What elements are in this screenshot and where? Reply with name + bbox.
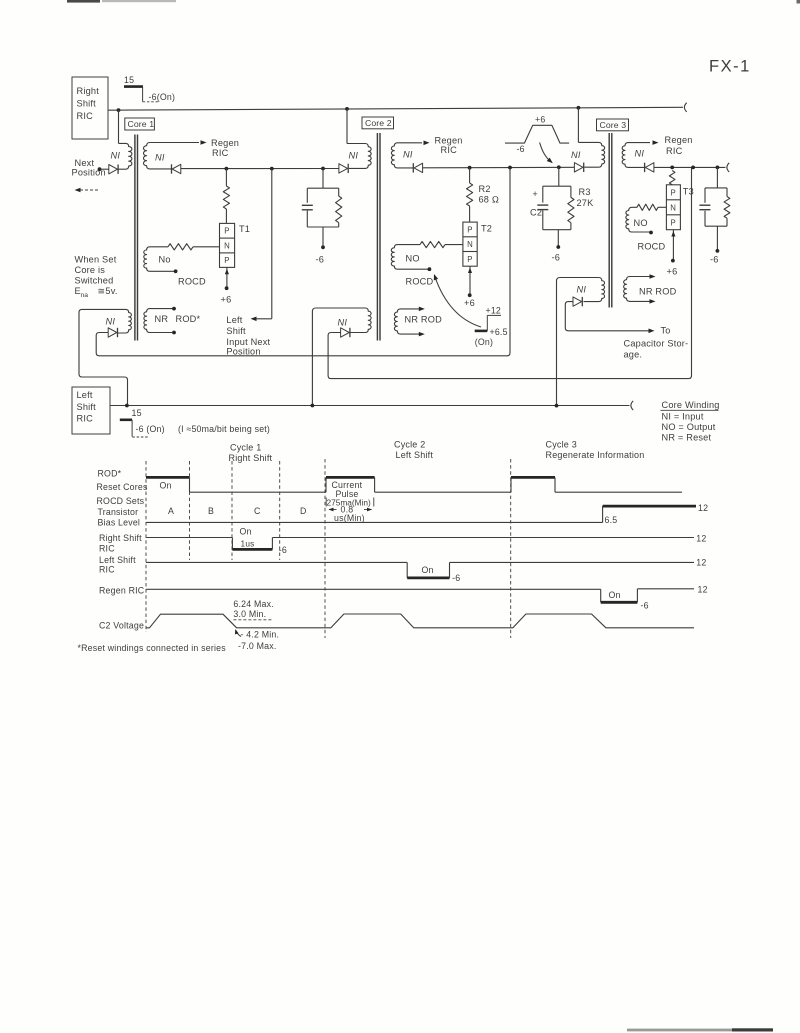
svg-text:Position: Position xyxy=(226,347,260,357)
label NI xyxy=(577,285,587,295)
svg-text:+: + xyxy=(533,189,538,199)
svg-text:3.0 Min.: 3.0 Min. xyxy=(233,609,266,619)
wire: core1 regen line to core2 input diode xyxy=(181,168,339,170)
svg-text:Left: Left xyxy=(226,315,242,325)
label Regen RIC xyxy=(211,138,239,158)
row label ROCD Sets Transistor Bias Level xyxy=(97,496,145,528)
diode (core3 input) xyxy=(574,163,583,172)
diode (core2 input from core1 side) xyxy=(339,164,348,173)
dashed divider x=189.5 xyxy=(189,461,191,560)
svg-text:P: P xyxy=(670,188,675,197)
level annotation +12/+6.5(On) xyxy=(475,305,508,347)
svg-text:-6: -6 xyxy=(316,255,325,265)
svg-text:Cycle 3: Cycle 3 xyxy=(546,440,577,450)
svg-text:NI: NI xyxy=(571,150,581,160)
winding NI core2 regen (right top) xyxy=(391,143,422,168)
core 1 (magnetic core, double line) xyxy=(135,135,138,341)
svg-text:na: na xyxy=(81,292,89,299)
label NI xyxy=(106,316,116,326)
svg-text:ROCD: ROCD xyxy=(178,276,206,286)
svg-text:NI: NI xyxy=(577,285,587,295)
svg-text:On: On xyxy=(160,481,172,491)
svg-text:NR: NR xyxy=(155,314,169,324)
section labels A B C D xyxy=(168,506,307,516)
winding NI core1 regen (right top) xyxy=(144,143,199,169)
arrow and labels -4.2 Min / -7.0 Max xyxy=(235,629,279,651)
svg-text:Switched: Switched xyxy=(75,276,114,286)
junction dot xyxy=(345,107,349,111)
wire: top bus drop to core1 NI winding xyxy=(118,110,120,143)
label +6 xyxy=(221,295,232,305)
label 6.5 xyxy=(605,515,618,525)
labels On -6 12 xyxy=(422,557,707,583)
svg-text:R2: R2 xyxy=(479,184,491,194)
labels On -6 12 xyxy=(609,584,708,610)
svg-text:To: To xyxy=(661,326,671,336)
winding NI core3 regen (right top) xyxy=(622,143,650,168)
svg-text:-6: -6 xyxy=(517,144,525,154)
dashed divider x=232 xyxy=(231,461,233,560)
svg-text:Regenerate Information: Regenerate Information xyxy=(546,450,645,460)
diode (core1 regen output) xyxy=(172,164,181,173)
waveform C2 voltage xyxy=(146,614,694,628)
label NI xyxy=(111,150,121,160)
svg-text:RIC: RIC xyxy=(212,148,229,158)
dashed divider x=279.7 xyxy=(279,461,281,560)
svg-text:Core is: Core is xyxy=(75,265,106,275)
label Next Position xyxy=(72,158,106,177)
svg-text:C2 Voltage: C2 Voltage xyxy=(99,621,144,631)
row label Regen RIC xyxy=(99,586,145,596)
legend: core winding xyxy=(661,400,720,443)
svg-text:Core Winding: Core Winding xyxy=(662,400,720,410)
svg-text:T2: T2 xyxy=(481,223,492,233)
waveform Regen RIC xyxy=(146,589,694,603)
node ROCD (core3) xyxy=(649,231,653,235)
svg-text:-6: -6 xyxy=(552,253,561,263)
winding NI core3 left-shift input (left bottom) xyxy=(560,278,605,302)
resistor (T3 collector) xyxy=(669,171,675,185)
junction dot xyxy=(117,108,121,112)
svg-text:-6 (On): -6 (On) xyxy=(136,424,165,434)
svg-text:N: N xyxy=(670,203,676,212)
junction dot (wire A / box) xyxy=(508,166,512,170)
core 3 (magnetic core, double line) xyxy=(609,133,612,308)
wire: left-shift RIC bus xyxy=(110,401,633,410)
svg-text:NI: NI xyxy=(349,151,359,161)
dashed cycle boundary x=325 xyxy=(324,459,326,638)
junction dot (T3) xyxy=(670,166,674,170)
junction dot xyxy=(555,404,559,408)
waveform Right Shift RIC xyxy=(146,538,694,550)
winding NO core2 output xyxy=(391,245,429,270)
svg-text:NR ROD: NR ROD xyxy=(639,287,677,297)
svg-text:T3: T3 xyxy=(683,187,694,197)
svg-text:15: 15 xyxy=(124,75,134,85)
transistor T2 (PNP boxes) xyxy=(463,222,477,266)
svg-text:NI = Input: NI = Input xyxy=(662,412,704,422)
label NO xyxy=(406,254,420,264)
transistor T1 (PNP boxes) xyxy=(220,223,235,267)
block Left Shift RIC xyxy=(72,387,110,434)
svg-text:NI: NI xyxy=(403,150,413,160)
wire: core2 regen line to core3 input diode xyxy=(423,166,575,169)
svg-text:Cycle 1: Cycle 1 xyxy=(230,443,261,453)
label To Capacitor Storage xyxy=(624,326,689,360)
node ROCD (core1) xyxy=(174,269,178,273)
svg-text:NI: NI xyxy=(106,316,116,326)
label 12 xyxy=(698,503,708,513)
svg-text:Right Shift: Right Shift xyxy=(99,533,142,543)
footnote reset windings xyxy=(78,643,227,653)
label ROCD xyxy=(178,276,206,286)
winding NI core2 left-shift input (left bottom) xyxy=(316,308,371,333)
svg-text:+12: +12 xyxy=(486,305,502,315)
curved arrow from pulse to core3 input node xyxy=(540,143,553,164)
diode (next position input, core1) xyxy=(100,165,118,174)
note: When Set Core is Switched xyxy=(75,255,118,300)
arrow to Regen RIC (core2) xyxy=(424,141,430,146)
block Right Shift RIC xyxy=(72,77,108,139)
winding NR ROD* core1 reset xyxy=(144,309,174,333)
T1 emitter wire to +6 xyxy=(225,267,229,290)
svg-text:12: 12 xyxy=(698,584,708,594)
diode (core2 regen output) xyxy=(413,163,422,172)
svg-text:27K: 27K xyxy=(577,198,595,208)
svg-text:68 Ω: 68 Ω xyxy=(479,195,500,205)
wire: core3 regen line xyxy=(654,163,729,172)
label NI xyxy=(571,150,581,160)
junction dot (RC net 1) xyxy=(321,167,325,171)
svg-text:C: C xyxy=(254,506,261,516)
wire: to capacitor storage xyxy=(565,302,654,333)
svg-text:(I ≈50ma/bit being set): (I ≈50ma/bit being set) xyxy=(178,424,270,434)
level annotation 15/-6(On) at Left Shift RIC xyxy=(120,408,165,437)
label T1 xyxy=(239,224,250,234)
svg-text:Regen: Regen xyxy=(211,138,239,148)
page corner mark xyxy=(797,0,800,4)
label NI xyxy=(338,318,348,328)
svg-text:1us: 1us xyxy=(241,539,255,549)
label ROCD xyxy=(406,277,434,287)
svg-text:Right: Right xyxy=(77,86,100,96)
svg-text:Core 1: Core 1 xyxy=(128,119,155,129)
wire: left shift input next position (vertical + arrow) xyxy=(251,169,272,321)
timing diagram headers xyxy=(229,443,273,464)
label NR ROD* xyxy=(155,314,201,324)
svg-text:Reset Cores: Reset Cores xyxy=(97,482,148,492)
label T3 xyxy=(683,187,694,197)
svg-text:Position: Position xyxy=(72,167,106,177)
label NI xyxy=(349,151,359,161)
label NI xyxy=(635,149,645,159)
svg-text:RIC: RIC xyxy=(666,146,683,156)
svg-text:Transistor: Transistor xyxy=(98,507,139,517)
arrow to Regen RIC (core1) xyxy=(201,140,207,145)
labels 6.24 Max / 3.0 Min xyxy=(233,599,273,620)
label Left Shift Input Next Position xyxy=(226,315,270,357)
junction dot (RC net 3) xyxy=(716,166,720,170)
junction dot (wire B) xyxy=(691,166,695,170)
waveform ROD reset cores xyxy=(146,477,682,492)
row label Right Shift RIC xyxy=(99,533,142,554)
core 2 (magnetic core, double line) xyxy=(377,133,380,341)
winding NR ROD core2 reset xyxy=(394,309,421,334)
waveform Left Shift RIC xyxy=(146,562,694,578)
diode (core3 regen output) xyxy=(645,163,654,172)
wire from left-shift bus up to core3 bottom NI xyxy=(557,278,561,406)
diode (core3 left-shift input) xyxy=(573,297,582,306)
winding NR ROD core3 reset xyxy=(624,277,651,302)
label NI xyxy=(155,153,165,163)
svg-text:C2: C2 xyxy=(530,208,542,218)
winding NI core1 right-shift input (left bottom) xyxy=(118,309,131,333)
resistor (T1 collector) xyxy=(223,169,229,224)
svg-text:NI: NI xyxy=(111,150,121,160)
svg-text:On: On xyxy=(609,590,621,600)
svg-text:P: P xyxy=(224,256,229,265)
svg-text:ROCD Sets: ROCD Sets xyxy=(97,496,145,506)
svg-text:RIC: RIC xyxy=(77,111,94,121)
svg-text:NI: NI xyxy=(155,153,165,163)
level annotation 15/-6(On) at Right Shift RIC xyxy=(124,75,175,102)
svg-text:P: P xyxy=(467,255,472,264)
svg-text:Core 2: Core 2 xyxy=(365,118,392,128)
svg-text:NR ROD: NR ROD xyxy=(405,314,443,324)
label NR ROD xyxy=(639,287,677,297)
loop wire for core1 bottom NI from left-shift RIC xyxy=(79,309,128,405)
label T2 xyxy=(481,223,492,233)
T2 emitter wire to +6 xyxy=(468,266,472,297)
svg-text:15: 15 xyxy=(132,408,142,418)
svg-text:FX-1: FX-1 xyxy=(709,58,751,76)
svg-text:R3: R3 xyxy=(579,187,591,197)
svg-text:Left Shift: Left Shift xyxy=(99,555,136,565)
svg-text:6.24 Max.: 6.24 Max. xyxy=(233,599,273,609)
svg-text:*Reset windings connected in s: *Reset windings connected in series xyxy=(78,643,227,653)
winding NI core1 input (left top) xyxy=(118,143,132,169)
junction dot xyxy=(311,404,315,408)
wire B: core2 bottom diode to core3 regen node xyxy=(328,167,691,378)
core 2 label box xyxy=(362,117,394,129)
svg-text:Shift: Shift xyxy=(226,326,246,336)
arrows on NR stubs xyxy=(419,307,425,337)
wire: top bus drop to core2 NI winding xyxy=(346,109,348,144)
svg-text:NO: NO xyxy=(634,218,648,228)
label ROCD xyxy=(638,242,666,252)
svg-text:RIC: RIC xyxy=(99,544,115,554)
svg-text:NO: NO xyxy=(406,254,420,264)
svg-text:N: N xyxy=(224,242,230,251)
wire: top bus drop to core3 NI winding xyxy=(577,108,579,143)
arrows on NR stubs xyxy=(650,274,656,303)
svg-text:RIC: RIC xyxy=(77,414,94,424)
svg-text:us(Min): us(Min) xyxy=(334,513,365,523)
svg-text:ROCD: ROCD xyxy=(638,242,666,252)
svg-text:Input Next: Input Next xyxy=(226,337,270,347)
diode (core2 left-shift input) xyxy=(341,328,350,337)
svg-text:P: P xyxy=(467,225,472,234)
junction dot (left shift input drop) xyxy=(270,167,274,171)
winding NI core2 input (left top) xyxy=(347,144,371,169)
svg-text:Left: Left xyxy=(77,390,93,400)
svg-text:N: N xyxy=(467,240,473,249)
junction dot (C2) xyxy=(557,165,561,169)
node dots on NR stubs xyxy=(172,307,176,335)
svg-text:T1: T1 xyxy=(239,224,250,234)
dashed cycle boundary x=146 xyxy=(145,461,147,632)
label Regen RIC xyxy=(665,135,693,156)
winding NI core3 input (left top) xyxy=(578,142,604,167)
label Regen RIC xyxy=(435,136,463,155)
svg-text:12: 12 xyxy=(698,503,708,513)
label R2 68ohm xyxy=(479,184,500,205)
T3 emitter wire to +6 xyxy=(671,230,675,263)
svg-text:Capacitor Stor-: Capacitor Stor- xyxy=(624,338,689,348)
svg-text:NO = Output: NO = Output xyxy=(662,422,716,432)
dimension 0.8 us(Min) xyxy=(329,505,373,524)
svg-text:+6: +6 xyxy=(667,267,678,277)
svg-text:RIC: RIC xyxy=(441,145,458,155)
svg-text:12: 12 xyxy=(696,533,706,543)
curved arrow from +6.5 level to ROCD node xyxy=(434,274,481,327)
resistor (T2 base) + wire xyxy=(420,242,463,248)
label NR ROD xyxy=(405,314,443,324)
RC damper network 3 xyxy=(699,167,730,252)
svg-text:Regen RIC: Regen RIC xyxy=(99,586,145,596)
svg-text:+6: +6 xyxy=(221,295,232,305)
svg-text:NI: NI xyxy=(338,318,348,328)
svg-text:No: No xyxy=(159,254,171,264)
junction dot (T1 collector) xyxy=(225,167,229,171)
label On (ROD pulse 1) xyxy=(160,481,172,491)
svg-text:Shift: Shift xyxy=(77,99,97,109)
svg-text:12: 12 xyxy=(696,557,706,567)
svg-text:+6: +6 xyxy=(535,115,545,125)
dashed cycle boundary x=510.7 xyxy=(510,459,512,638)
page-bottom smudge bar xyxy=(627,1028,773,1031)
winding No core1 output xyxy=(144,247,175,271)
resistor R2 xyxy=(467,168,473,222)
svg-text:(On): (On) xyxy=(475,337,493,347)
level annotation +6/-6 pulse (regen RIC drive) xyxy=(505,115,569,154)
svg-text:ROD*: ROD* xyxy=(176,314,201,324)
svg-text:D: D xyxy=(300,506,307,516)
labels On 1us -6 12 xyxy=(240,526,707,555)
page-top smudge bar xyxy=(67,0,176,3)
wire: right-shift RIC bus xyxy=(108,103,687,112)
core 1 label box xyxy=(125,118,155,130)
svg-text:-6: -6 xyxy=(641,600,649,610)
label + C2 xyxy=(530,189,542,218)
svg-text:P: P xyxy=(670,218,675,227)
svg-text:Cycle 2: Cycle 2 xyxy=(394,440,425,450)
resistor (T1 base) + wire xyxy=(168,244,220,250)
winding NO core3 output xyxy=(626,207,651,232)
node: next position xyxy=(98,167,102,171)
label -6 xyxy=(552,253,561,263)
svg-text:Core 3: Core 3 xyxy=(600,120,627,130)
node ROCD (core2) xyxy=(428,267,432,271)
svg-text:age.: age. xyxy=(624,350,643,360)
label Current Pulse 275ma(Min) xyxy=(326,480,374,508)
svg-text:ROD*: ROD* xyxy=(98,469,122,479)
svg-text:RIC: RIC xyxy=(99,565,115,575)
svg-text:+6: +6 xyxy=(464,298,475,308)
label -6 xyxy=(710,255,719,265)
svg-text:NR = Reset: NR = Reset xyxy=(662,433,712,443)
svg-text:B: B xyxy=(208,506,214,516)
junction dot xyxy=(125,404,129,408)
svg-text:When Set: When Set xyxy=(75,255,117,265)
dashed arrow to next position (left) xyxy=(75,188,99,193)
label NO xyxy=(634,218,648,228)
label NI xyxy=(403,150,413,160)
svg-text:6.5: 6.5 xyxy=(605,515,618,525)
svg-text:Shift: Shift xyxy=(77,402,97,412)
svg-text:Right Shift: Right Shift xyxy=(229,453,273,463)
wire from left-shift bus up to core2 bottom NI xyxy=(312,308,316,406)
label -6 xyxy=(316,255,325,265)
row label C2 Voltage xyxy=(99,621,144,631)
svg-text:-6: -6 xyxy=(279,545,287,555)
svg-text:P: P xyxy=(224,227,229,236)
diode (core1 right-shift input) xyxy=(108,328,117,337)
svg-text:A: A xyxy=(168,506,174,516)
svg-text:On: On xyxy=(422,565,434,575)
transistor T3 (PNP boxes) xyxy=(666,185,680,230)
row label Left Shift RIC xyxy=(99,555,136,575)
arrow to Regen RIC (core3) xyxy=(653,140,659,145)
svg-text:-6(On): -6(On) xyxy=(149,92,176,102)
svg-text:ROCD: ROCD xyxy=(406,277,434,287)
svg-text:-6: -6 xyxy=(452,573,460,583)
svg-text:Left Shift: Left Shift xyxy=(396,450,434,460)
svg-text:≅5v.: ≅5v. xyxy=(98,286,118,296)
svg-text:NI: NI xyxy=(635,149,645,159)
svg-text:On: On xyxy=(240,526,252,536)
junction dot (R2) xyxy=(468,166,472,170)
RC damper network 1 xyxy=(302,169,342,250)
junction dot xyxy=(577,106,581,110)
svg-text:+6.5: +6.5 xyxy=(490,327,508,337)
wire A: core1 bottom diode to core2 regen node xyxy=(96,168,510,356)
core 3 label box xyxy=(597,119,629,131)
label No xyxy=(159,254,171,264)
label R3 27K xyxy=(577,187,595,208)
svg-text:Regen: Regen xyxy=(665,135,693,145)
capacitor C2 + resistor R3 network xyxy=(537,167,574,249)
svg-text:-6: -6 xyxy=(710,255,719,265)
resistor (T3 base) + wire xyxy=(637,204,666,210)
svg-text:- 4.2 Min.: - 4.2 Min. xyxy=(241,630,280,640)
svg-text:-7.0 Max.: -7.0 Max. xyxy=(238,641,276,651)
waveform ROCD bias level xyxy=(146,506,696,522)
label +6 xyxy=(667,267,678,277)
row label ROD* Reset Cores xyxy=(97,469,148,493)
note: I = 50ma/bit being set xyxy=(178,424,270,434)
label +6 xyxy=(464,298,475,308)
svg-text:Bias Level: Bias Level xyxy=(98,518,141,528)
